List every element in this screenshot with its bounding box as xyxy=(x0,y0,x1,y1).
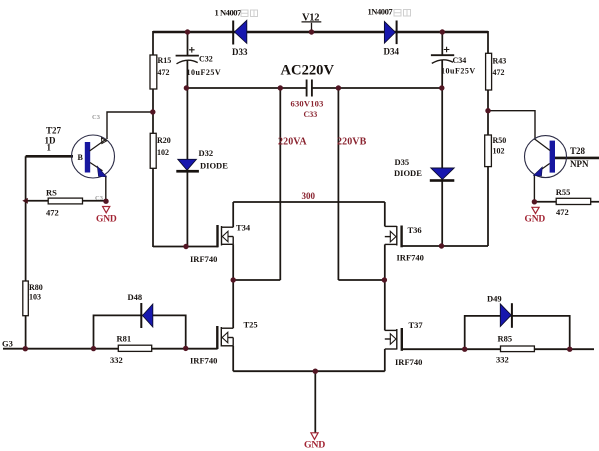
svg-text:D33: D33 xyxy=(232,47,248,57)
svg-text:T36: T36 xyxy=(408,225,422,235)
svg-text:1N4007: 1N4007 xyxy=(368,7,394,17)
svg-text:C34: C34 xyxy=(453,56,467,65)
svg-text:10uF25V: 10uF25V xyxy=(441,67,476,76)
svg-text:R80: R80 xyxy=(29,283,43,292)
svg-text:R81: R81 xyxy=(117,334,132,344)
svg-text:AC220V: AC220V xyxy=(281,63,335,79)
svg-text:332: 332 xyxy=(496,355,509,365)
svg-text:V12: V12 xyxy=(302,13,319,24)
svg-text:DIODE: DIODE xyxy=(394,168,422,178)
svg-text:R85: R85 xyxy=(498,334,513,344)
svg-text:T34: T34 xyxy=(236,223,251,233)
svg-text:D34: D34 xyxy=(384,47,400,57)
svg-text:C32: C32 xyxy=(199,55,213,64)
svg-text:300: 300 xyxy=(302,191,316,201)
svg-text:472: 472 xyxy=(556,207,569,217)
svg-text:103: 103 xyxy=(29,293,41,302)
svg-text:R50: R50 xyxy=(493,136,507,145)
svg-text:R20: R20 xyxy=(157,136,171,145)
svg-text:472: 472 xyxy=(158,68,170,77)
svg-text:332: 332 xyxy=(110,355,123,365)
svg-text:GND: GND xyxy=(525,215,546,225)
svg-text:C33: C33 xyxy=(304,110,318,119)
svg-text:D49: D49 xyxy=(487,294,502,304)
svg-text:IRF740: IRF740 xyxy=(397,253,424,263)
svg-text:220VB: 220VB xyxy=(337,137,367,148)
svg-text:RS: RS xyxy=(46,188,57,198)
svg-text:D48: D48 xyxy=(128,292,143,302)
svg-text:NPN: NPN xyxy=(570,159,589,169)
svg-text:C3: C3 xyxy=(92,114,101,121)
svg-text:T25: T25 xyxy=(244,320,258,330)
svg-text:10uF25V: 10uF25V xyxy=(187,68,222,77)
svg-text:D35: D35 xyxy=(395,157,410,167)
svg-text:630V103: 630V103 xyxy=(291,99,324,109)
svg-text:G3: G3 xyxy=(2,339,13,349)
svg-text:R55: R55 xyxy=(556,187,571,197)
svg-text:C3: C3 xyxy=(95,195,104,202)
svg-text:472: 472 xyxy=(493,68,505,77)
svg-text:102: 102 xyxy=(157,148,169,157)
svg-text:IRF740: IRF740 xyxy=(190,254,217,264)
svg-text:472: 472 xyxy=(46,208,59,218)
svg-text:102: 102 xyxy=(493,147,505,156)
svg-text:R15: R15 xyxy=(158,56,172,65)
svg-text:GND: GND xyxy=(304,440,325,451)
svg-text:T28: T28 xyxy=(570,146,586,156)
svg-text:IRF740: IRF740 xyxy=(190,356,217,366)
svg-text:220VA: 220VA xyxy=(278,137,307,148)
svg-text:T37: T37 xyxy=(409,320,424,330)
svg-text:GND: GND xyxy=(96,215,117,225)
svg-text:IRF740: IRF740 xyxy=(395,357,422,367)
svg-text:R43: R43 xyxy=(493,56,507,65)
svg-text:D32: D32 xyxy=(199,148,214,158)
svg-text:1 N4007: 1 N4007 xyxy=(215,8,243,18)
svg-text:T27: T27 xyxy=(46,126,62,136)
svg-text:DIODE: DIODE xyxy=(200,160,228,170)
svg-text:B: B xyxy=(78,153,84,162)
svg-text:1: 1 xyxy=(47,143,52,153)
